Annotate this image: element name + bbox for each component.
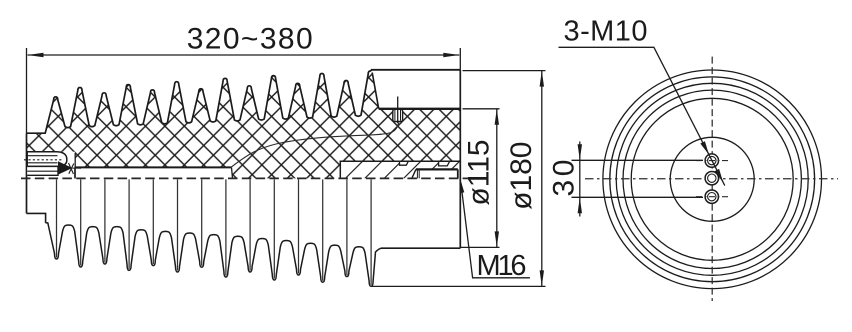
svg-text:320~380: 320~380 (187, 23, 313, 56)
shed edge verticals (lower external view) (57, 179, 372, 285)
right extension + body edge (459, 48, 461, 70)
threaded insert detail (stud hole) (27, 152, 67, 167)
end fitting single hatch (345, 161, 459, 178)
bottom left step (27, 213, 46, 223)
shed profile outline (26, 70, 372, 133)
left extension + body edge (26, 48, 28, 133)
end fitting bottom edge (381, 247, 460, 249)
flange top edge (371, 69, 460, 71)
clamp wedge (filled) (58, 161, 72, 174)
core rod band (75, 168, 232, 178)
flange screw (393, 109, 403, 121)
last shed right wall (372, 73, 379, 109)
label M16 leader (461, 183, 530, 278)
horizontal centerline (585, 178, 838, 180)
end fitting step line (340, 161, 460, 178)
label 3-M10 leader (559, 47, 725, 185)
dimension 30 (572, 159, 704, 161)
insulator body cross-hatch (26, 70, 460, 179)
inner boss circle (670, 137, 754, 221)
svg-text:ø180: ø180 (505, 142, 538, 210)
svg-text:M16: M16 (477, 250, 527, 282)
hole centerline crosses (696, 161, 728, 197)
dimension ø180 (463, 70, 546, 72)
dimension 320~380 (28, 54, 460, 56)
notch 1 (400, 161, 409, 165)
fin (weather shed) lower profile (46, 223, 382, 287)
bolt holes 3-M10 (705, 154, 718, 167)
notch 2 (439, 161, 450, 166)
centerline left view (21, 177, 470, 179)
dimension ø115 (463, 108, 500, 110)
flange outer circles (end view) (603, 70, 822, 289)
rubber boundary S-curve (232, 123, 399, 167)
svg-text:ø115: ø115 (462, 139, 495, 205)
flange bottom edge (379, 108, 461, 110)
M16 hole channel (412, 169, 460, 178)
vertical centerline (711, 57, 713, 301)
svg-text:3-M10: 3-M10 (564, 16, 648, 48)
